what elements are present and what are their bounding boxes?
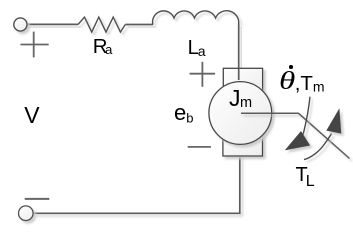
wire: top-left terminal to resistor bbox=[27, 24, 81, 27]
shaft: horizontal from rotor then diagonal down-right bbox=[241, 113, 350, 158]
plus sign (source polarity, top-left) bbox=[21, 32, 49, 58]
label eb bbox=[174, 100, 193, 126]
label Ra bbox=[93, 35, 113, 59]
inductor La (4 humps) bbox=[153, 11, 239, 25]
minus sign (source polarity, bottom-left) bbox=[25, 198, 50, 200]
wire: resistor to inductor bbox=[125, 25, 155, 28]
label La bbox=[188, 37, 206, 60]
label TL bbox=[296, 164, 315, 187]
wire: bottom-left terminal along bottom and up to motor bbox=[34, 150, 240, 213]
torque arc Tm (C-shaped, left of shaft) bbox=[302, 97, 311, 141]
terminal bottom-left bbox=[19, 206, 34, 221]
arrowhead Tm (points down-left) bbox=[285, 131, 311, 150]
motor rotor circle Jm bbox=[209, 82, 272, 145]
arrowhead TL (points up) bbox=[326, 108, 341, 133]
label theta-dot bbox=[279, 66, 295, 96]
motor brush block top bbox=[223, 68, 262, 96]
torque arc TL (lower, rising to the right) bbox=[304, 134, 332, 160]
label comma Tm bbox=[295, 72, 325, 96]
wire: inductor down to motor top bbox=[239, 25, 242, 83]
resistor Ra (zigzag) bbox=[78, 17, 125, 32]
plus sign (eb polarity, above motor) bbox=[190, 62, 216, 87]
terminal top-left bbox=[14, 18, 27, 31]
motor brush block bottom bbox=[223, 130, 263, 156]
label V bbox=[24, 102, 39, 129]
dot above theta bbox=[289, 65, 293, 69]
wire segment inside top brush bbox=[238, 68, 240, 80]
label Jm bbox=[229, 85, 252, 112]
minus sign (eb polarity, below-left of motor) bbox=[188, 146, 211, 148]
